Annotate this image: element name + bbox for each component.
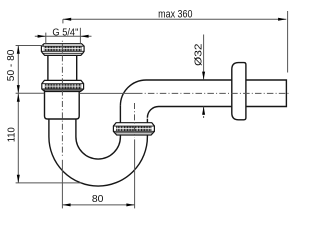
nut on riser [113,123,154,135]
svg-text:max 360: max 360 [158,9,192,21]
svg-text:50 - 80: 50 - 80 [6,49,17,81]
inlet tube between nuts [48,55,77,80]
elbow inner arc to outlet bottom edge [147,107,231,118]
trap U-tube outer wall [49,119,147,186]
svg-text:110: 110 [6,127,17,142]
svg-text:80: 80 [92,194,104,205]
svg-text:G 5/4": G 5/4" [52,27,78,38]
outlet centerline solid stub [79,92,136,94]
outlet pipe right of flange with end cap [246,80,287,107]
nut union middle [42,80,84,91]
trap body collar below nut2 [45,92,80,120]
trap U-tube inner wall [76,106,121,159]
svg-text:Ø32: Ø32 [193,43,204,66]
wall flange [232,63,246,120]
nut G5/4 top [41,44,84,56]
elbow outer arc to outlet top edge [120,80,231,106]
arrowheads max360 [63,18,71,21]
riser centerline [134,103,136,138]
outlet centerline [136,92,289,94]
inlet centerline [61,41,63,156]
